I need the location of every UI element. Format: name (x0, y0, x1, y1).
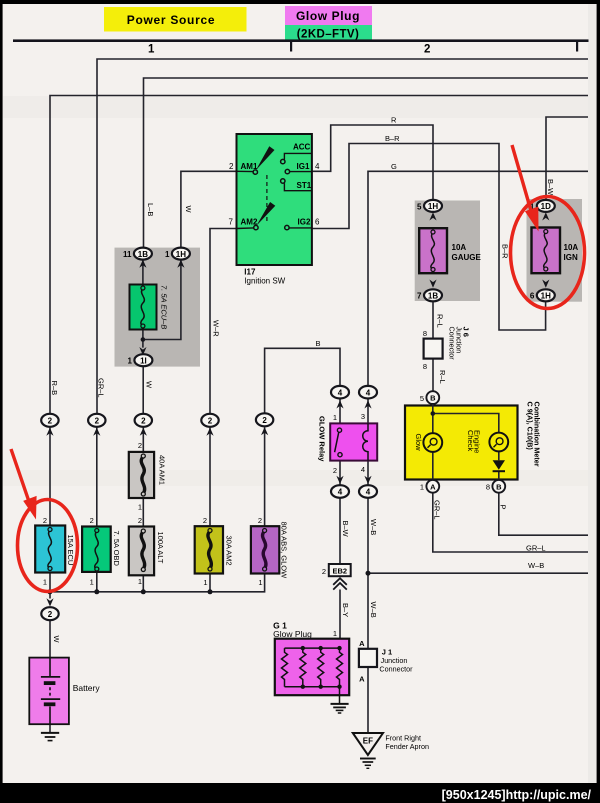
node B circle (pin 5) into meter (420, 391, 439, 404)
svg-text:1: 1 (165, 250, 170, 259)
wire B-Y from EB2 to glow plug (339, 590, 341, 649)
shield chevrons below EB2 (333, 578, 347, 589)
svg-text:Connector: Connector (447, 327, 456, 361)
svg-text:Glow Plug: Glow Plug (273, 629, 312, 639)
EB2 connector (322, 564, 351, 576)
switch lever AM2 (256, 202, 275, 226)
svg-text:A: A (359, 675, 365, 684)
svg-text:1D: 1D (541, 202, 551, 211)
glow indicator lamp (414, 433, 442, 452)
wire W to battery (49, 620, 51, 677)
fuse 15A ECU (35, 516, 75, 587)
fuse 30A AM2 (195, 516, 234, 587)
svg-text:2: 2 (258, 516, 262, 525)
svg-text:1H: 1H (541, 292, 551, 301)
svg-text:ST1: ST1 (297, 181, 312, 190)
svg-text:1: 1 (128, 357, 133, 366)
wire into 7.5A OBD fuse (96, 427, 98, 526)
svg-text:80A ABS, GLOW: 80A ABS, GLOW (280, 522, 289, 580)
glow relay (318, 416, 378, 462)
wire GR-L from meter A (433, 493, 588, 552)
svg-text:B–W: B–W (341, 521, 350, 538)
fuse 7.5A OBD (82, 516, 121, 587)
svg-text:I17: I17 (244, 268, 256, 277)
svg-text:Engine: Engine (473, 430, 482, 453)
harness connector 2 ovals row (41, 413, 273, 427)
svg-text:Fender Apron: Fender Apron (385, 742, 429, 751)
connector 1B oval (pin 7) (417, 289, 442, 301)
svg-text:R–L: R–L (438, 370, 447, 384)
wire 1B to fuse ECU-B (142, 259, 144, 284)
Power Source label (104, 7, 247, 32)
svg-text:2: 2 (43, 516, 47, 525)
svg-text:GR–L: GR–L (526, 544, 546, 553)
svg-text:1: 1 (258, 578, 262, 587)
wire relay pin2 to EB2 (339, 461, 341, 564)
wire GR-L column from bus row 1 (97, 59, 588, 413)
svg-text:B: B (430, 394, 436, 403)
svg-text:[950x1245]http://upic.me/: [950x1245]http://upic.me/ (442, 788, 592, 802)
svg-text:1H: 1H (176, 250, 186, 259)
svg-text:Battery: Battery (73, 683, 101, 693)
svg-text:1: 1 (333, 629, 337, 638)
svg-text:IG1: IG1 (297, 162, 310, 171)
wire into 80A ABS GLOW fuse (264, 427, 266, 526)
svg-text:2: 2 (95, 417, 100, 426)
svg-text:10A: 10A (564, 243, 579, 252)
svg-text:1: 1 (420, 483, 424, 492)
wire B-R from IG2 to 10A IGN bottom (312, 144, 546, 331)
red circle around 10A IGN (511, 197, 585, 309)
junction dots (47, 337, 435, 594)
svg-text:Power Source: Power Source (127, 13, 215, 27)
wire P from meter B (499, 493, 588, 536)
svg-text:7: 7 (229, 218, 234, 227)
wire meter B pin into box (433, 404, 499, 433)
wire relay pin3 stub (367, 399, 369, 424)
svg-text:R–L: R–L (436, 314, 445, 328)
svg-text:1B: 1B (138, 250, 148, 259)
svg-text:Glow: Glow (414, 434, 423, 452)
ground EF Front Right Fender Apron (353, 733, 429, 768)
connector 1H oval (pin 5) (417, 200, 442, 212)
svg-text:GLOW Relay: GLOW Relay (318, 416, 327, 462)
red circle around 15A ECU (18, 500, 78, 592)
svg-text:B–Y: B–Y (341, 603, 350, 617)
fuse 80A ABS, GLOW (251, 516, 289, 587)
wire relay pin1 stub (339, 399, 341, 424)
svg-text:1: 1 (90, 578, 94, 587)
check engine lamp (466, 430, 508, 453)
ignition switch I17 (237, 134, 312, 265)
svg-text:Ignition SW: Ignition SW (244, 277, 285, 286)
wire W below 1I (142, 366, 144, 414)
node B circle (pin 8) (486, 480, 505, 493)
wire W-R from AM2 (210, 229, 237, 414)
wire ECU-B fuse bottom to 1I and 1H branch (143, 259, 181, 347)
svg-text:IGN: IGN (564, 253, 578, 262)
svg-text:1H: 1H (428, 202, 438, 211)
border frame top (0, 0, 600, 4)
svg-text:4: 4 (361, 465, 365, 474)
power bus bar (13, 39, 589, 51)
svg-text:2: 2 (203, 516, 207, 525)
wire R from IG1 to 10A GAUGE (312, 125, 433, 200)
relay pin numbers (333, 412, 365, 475)
svg-text:1: 1 (333, 413, 337, 422)
svg-text:11: 11 (123, 250, 132, 259)
svg-text:L–B: L–B (146, 203, 155, 216)
svg-text:ACC: ACC (293, 143, 311, 152)
Glow Plug label (285, 6, 372, 25)
svg-text:8: 8 (486, 483, 490, 492)
svg-text:2: 2 (229, 162, 234, 171)
battery (29, 658, 100, 725)
svg-text:A: A (359, 639, 365, 648)
svg-text:B–W: B–W (546, 179, 555, 196)
svg-text:7: 7 (417, 292, 422, 301)
svg-text:4: 4 (338, 388, 343, 397)
svg-text:2: 2 (48, 417, 53, 426)
switch lever AM1 (256, 146, 275, 170)
mechanical link dashed (266, 175, 268, 224)
svg-text:EB2: EB2 (333, 566, 348, 575)
wire W-B branch to right (368, 572, 588, 574)
connector 1I oval (pin 1) (128, 354, 153, 366)
wire J1 to EF ground (367, 667, 369, 733)
fuse 40A AM1 (129, 441, 167, 512)
svg-text:Connector: Connector (379, 665, 413, 674)
svg-text:P: P (499, 505, 508, 510)
svg-text:W: W (184, 206, 193, 214)
svg-text:2: 2 (208, 417, 213, 426)
meter junction dot (431, 411, 436, 416)
svg-text:B: B (316, 339, 321, 348)
arrow into 1I (139, 347, 146, 355)
wire battery to ground (49, 706, 51, 733)
connector 1D oval (pin 1) (530, 200, 555, 212)
svg-text:1: 1 (43, 578, 47, 587)
red arrow to 15A ECU (11, 449, 37, 520)
wire R-L J6 to meter (432, 359, 434, 392)
bottom fuse bus (50, 572, 265, 599)
battery connector 2 oval (41, 607, 58, 620)
svg-text:1B: 1B (428, 292, 438, 301)
10A GAUGE fuse block gray box (415, 201, 480, 302)
glow relay connector ovals bottom (336, 476, 343, 484)
svg-text:GAUGE: GAUGE (452, 253, 482, 262)
svg-text:4: 4 (366, 388, 371, 397)
wire B from ABS GLOW fuse to glow relay (265, 348, 340, 413)
svg-text:2: 2 (138, 516, 142, 525)
border frame left (0, 0, 3, 803)
svg-text:1I: 1I (140, 356, 147, 365)
fuse 100A ALT (129, 516, 165, 586)
svg-text:1: 1 (138, 577, 142, 586)
fuse 7.5A ECU-B (130, 285, 169, 330)
svg-text:W–B: W–B (369, 519, 378, 535)
svg-text:8: 8 (423, 329, 427, 338)
svg-text:2: 2 (333, 466, 337, 475)
svg-text:4: 4 (338, 488, 343, 497)
arrow into battery 2 oval (46, 598, 53, 606)
svg-text:IG2: IG2 (298, 218, 311, 227)
red arrow to 10A IGN (512, 145, 539, 232)
arrows into 1B / 1H (139, 260, 146, 268)
svg-text:EF: EF (363, 737, 373, 746)
wire G to glow relay coil (368, 171, 588, 385)
bottom watermark bar (0, 783, 600, 803)
ECU-B fuse block gray box (115, 248, 201, 367)
svg-text:W–B: W–B (528, 561, 544, 570)
svg-text:1: 1 (138, 503, 142, 512)
svg-text:7. 5A OBD: 7. 5A OBD (112, 531, 121, 567)
svg-text:1: 1 (148, 44, 155, 56)
node A circle (pin 1) (420, 480, 439, 493)
border frame right (597, 0, 600, 803)
wire L-B column (144, 78, 589, 248)
wire relay pin4 W-B to J1 (367, 461, 369, 649)
svg-text:10A: 10A (452, 243, 467, 252)
svg-text:W–R: W–R (212, 320, 221, 337)
junction connector J6 (423, 327, 471, 371)
svg-text:2: 2 (90, 516, 94, 525)
wire into 30A AM2 fuse (209, 427, 211, 526)
svg-text:W: W (145, 381, 154, 389)
junction connector J1 (359, 639, 413, 683)
wire glow lamp to A pin (432, 452, 434, 480)
svg-text:R–B: R–B (50, 381, 59, 396)
battery ground (41, 733, 59, 741)
svg-text:B: B (496, 482, 502, 491)
svg-text:40A AM1: 40A AM1 (158, 455, 167, 485)
svg-text:5: 5 (420, 394, 424, 403)
svg-text:1: 1 (203, 578, 207, 587)
wire into 40A AM1 fuse and 100A ALT (142, 427, 144, 526)
svg-text:8: 8 (423, 362, 427, 371)
wire B-W to 10A IGN (546, 117, 588, 200)
wire R-B column (50, 96, 588, 414)
diode (493, 460, 505, 471)
svg-text:2: 2 (322, 567, 326, 576)
svg-text:B–R: B–R (385, 134, 400, 143)
combination meter yellow box (405, 406, 518, 480)
svg-text:2: 2 (141, 417, 146, 426)
wire W from AM1 to ECU-B 1H (181, 171, 237, 248)
svg-text:W: W (52, 636, 61, 644)
svg-text:GR–L: GR–L (433, 500, 442, 520)
svg-text:15A ECU: 15A ECU (66, 535, 75, 566)
combination meter caption (526, 402, 542, 467)
svg-text:100A ALT: 100A ALT (156, 532, 165, 564)
svg-text:(2KD–FTV): (2KD–FTV) (297, 29, 359, 41)
wire into 15A ECU fuse (49, 427, 51, 525)
svg-text:R: R (391, 116, 397, 125)
svg-text:2: 2 (424, 44, 430, 56)
svg-text:Combination Meter: Combination Meter (533, 402, 542, 467)
svg-text:2: 2 (138, 441, 142, 450)
svg-text:4: 4 (315, 162, 320, 171)
fuse 10A GAUGE (419, 228, 481, 273)
svg-text:Glow Plug: Glow Plug (296, 9, 360, 23)
G1 glow plug assembly (273, 621, 349, 704)
svg-text:5: 5 (417, 202, 422, 211)
fuse 10A IGN (532, 228, 579, 274)
10A IGN fuse block gray box (527, 199, 583, 302)
svg-text:A: A (430, 482, 436, 491)
svg-text:7. 5A ECU–B: 7. 5A ECU–B (160, 285, 169, 329)
svg-text:B–R: B–R (501, 244, 510, 259)
I17 Ignition SW caption (244, 268, 285, 286)
2KD-FTV label (285, 25, 372, 42)
glow plug ground (331, 704, 349, 713)
svg-text:W–B: W–B (369, 602, 378, 618)
connector 1H oval (pin 6) (530, 289, 555, 301)
svg-text:4: 4 (366, 488, 371, 497)
svg-text:6: 6 (315, 218, 320, 227)
svg-text:GR–L: GR–L (97, 378, 106, 398)
svg-text:30A AM2: 30A AM2 (225, 536, 234, 566)
svg-text:G: G (391, 162, 397, 171)
wire check lamp to diode to B pin (498, 451, 500, 480)
connector 1B oval (pin 11) (123, 248, 152, 260)
connector 1H oval (pin 1) (165, 248, 190, 260)
wire R-L gauge fuse to J6 (432, 301, 434, 338)
svg-text:3: 3 (361, 412, 365, 421)
glow relay connector ovals top (331, 386, 377, 399)
svg-text:2: 2 (262, 416, 267, 425)
svg-text:6: 6 (530, 292, 535, 301)
svg-text:2: 2 (48, 610, 53, 619)
